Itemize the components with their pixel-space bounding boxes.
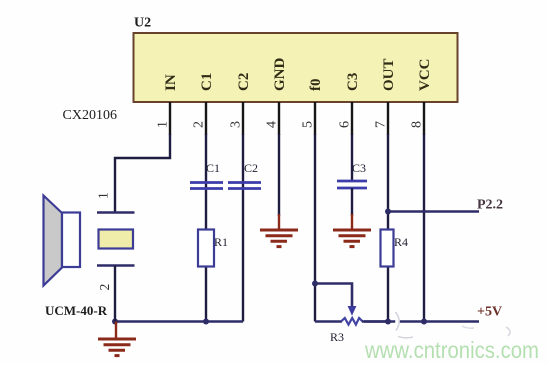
svg-text:2: 2 <box>97 284 112 291</box>
wire pin3 down through C2 <box>242 134 244 322</box>
svg-text:C3: C3 <box>352 161 366 175</box>
pin number 3 <box>229 121 244 128</box>
svg-text:R1: R1 <box>214 235 228 249</box>
svg-text:6: 6 <box>338 121 353 128</box>
pin name C2 <box>236 73 252 91</box>
pin number 7 <box>374 121 389 128</box>
svg-text:5: 5 <box>301 121 316 128</box>
wire pin5 down to potentiometer <box>314 134 316 322</box>
node junction R1 bottom <box>203 319 209 325</box>
potentiometer R3 bottom lead right <box>362 320 388 323</box>
svg-text:R3: R3 <box>330 330 344 344</box>
node junction pin5/wiper <box>312 281 318 287</box>
+5V rail (right) <box>364 320 479 323</box>
watermark text <box>364 337 539 363</box>
pin name C3 <box>345 73 361 91</box>
svg-text:4: 4 <box>265 121 280 128</box>
pin 1 stub <box>169 102 171 135</box>
pin 2 stub <box>205 102 207 135</box>
svg-text:P2.2: P2.2 <box>477 198 503 213</box>
svg-text:C1: C1 <box>199 73 215 91</box>
svg-text:GND: GND <box>272 58 288 92</box>
transducer pin number 1 <box>96 192 111 199</box>
svg-text:VCC: VCC <box>417 59 433 92</box>
node junction R4 bottom <box>385 319 391 325</box>
svg-text:OUT: OUT <box>381 58 397 91</box>
node junction pin7/P2.2 <box>385 209 391 215</box>
transducer pin number 2 <box>97 284 112 291</box>
label CX20106 <box>63 108 117 123</box>
ground rail (left) <box>115 320 243 323</box>
label C1 <box>206 161 220 175</box>
pin 6 stub <box>351 102 353 135</box>
svg-text:1: 1 <box>96 192 111 199</box>
capacitor C2 <box>228 183 261 189</box>
pin 3 stub <box>242 102 244 135</box>
label R4 <box>394 235 408 249</box>
wire pin2 down through C1 and R1 <box>205 134 207 322</box>
speaker UCM-40-R cone <box>44 196 63 286</box>
pin number 2 <box>192 121 207 128</box>
pin name VCC <box>417 59 433 92</box>
pin name f0 <box>308 79 324 92</box>
pin name OUT <box>381 58 397 91</box>
svg-text:C3: C3 <box>345 73 361 91</box>
pin 5 stub <box>314 102 316 135</box>
svg-text:C1: C1 <box>206 161 220 175</box>
pin number 4 <box>265 121 280 128</box>
node junction VCC rail <box>421 319 427 325</box>
wire pin8 down <box>423 134 425 322</box>
label UCM-40-R <box>45 303 108 318</box>
pin number 5 <box>301 121 316 128</box>
resistor R4 <box>381 230 394 267</box>
capacitor C3 <box>337 181 367 188</box>
speaker UCM-40-R body <box>62 213 80 268</box>
potentiometer R3 wiper branch wire <box>315 284 352 308</box>
svg-text:+5V: +5V <box>477 305 502 320</box>
pin 4 stub <box>278 102 280 135</box>
pin name C1 <box>199 73 215 91</box>
potentiometer R3 wiper arrow <box>348 306 357 316</box>
pin 8 stub <box>423 102 425 135</box>
label C3 <box>352 161 366 175</box>
svg-text:2: 2 <box>192 121 207 128</box>
label +5V <box>477 305 502 320</box>
svg-text:UCM-40-R: UCM-40-R <box>45 303 108 318</box>
svg-text:IN: IN <box>163 74 179 91</box>
svg-text:8: 8 <box>410 121 425 128</box>
ground (GND pin 4) <box>260 214 298 247</box>
resistor R1 <box>198 230 214 267</box>
svg-text:7: 7 <box>374 121 389 128</box>
svg-text:C2: C2 <box>244 161 258 175</box>
pin name IN <box>163 74 179 91</box>
pin number 1 <box>156 121 171 128</box>
transducer bottom plate <box>97 264 135 267</box>
node junction transducer/ground <box>112 319 118 325</box>
watermark logo ghost <box>394 311 511 338</box>
transducer crystal body <box>99 230 134 249</box>
wire C3 to ground <box>351 188 353 216</box>
label R3 <box>330 330 344 344</box>
ground (bottom left) <box>98 322 136 356</box>
pin name GND <box>272 58 288 92</box>
svg-text:R4: R4 <box>394 235 408 249</box>
wire transducer bottom to rail <box>114 266 116 322</box>
IC U2 CX20106 body <box>134 33 458 102</box>
label P2.2 <box>477 198 503 213</box>
wire pin6 to C3 <box>351 134 353 182</box>
svg-text:U2: U2 <box>134 16 151 31</box>
wire pin7 down through R4 <box>387 134 389 322</box>
potentiometer R3 bottom lead left <box>315 320 342 323</box>
label R1 <box>214 235 228 249</box>
svg-text:3: 3 <box>229 121 244 128</box>
wire pin4 to ground <box>278 134 280 216</box>
svg-text:f0: f0 <box>308 79 324 92</box>
svg-text:CX20106: CX20106 <box>63 108 117 123</box>
svg-text:C2: C2 <box>236 73 252 91</box>
capacitor C1 <box>190 183 223 189</box>
pin number 8 <box>410 121 425 128</box>
pin number 6 <box>338 121 353 128</box>
label U2 <box>134 16 151 31</box>
label C2 <box>244 161 258 175</box>
wire P2.2 branch <box>388 210 479 213</box>
pin 7 stub <box>387 102 389 135</box>
svg-text:www.cntronics.com: www.cntronics.com <box>364 337 539 363</box>
svg-text:1: 1 <box>156 121 171 128</box>
transducer top plate <box>97 211 135 214</box>
wire pin1 to transducer <box>115 134 170 212</box>
potentiometer R3 zigzag <box>341 318 363 325</box>
ground (below C3) <box>333 214 371 247</box>
